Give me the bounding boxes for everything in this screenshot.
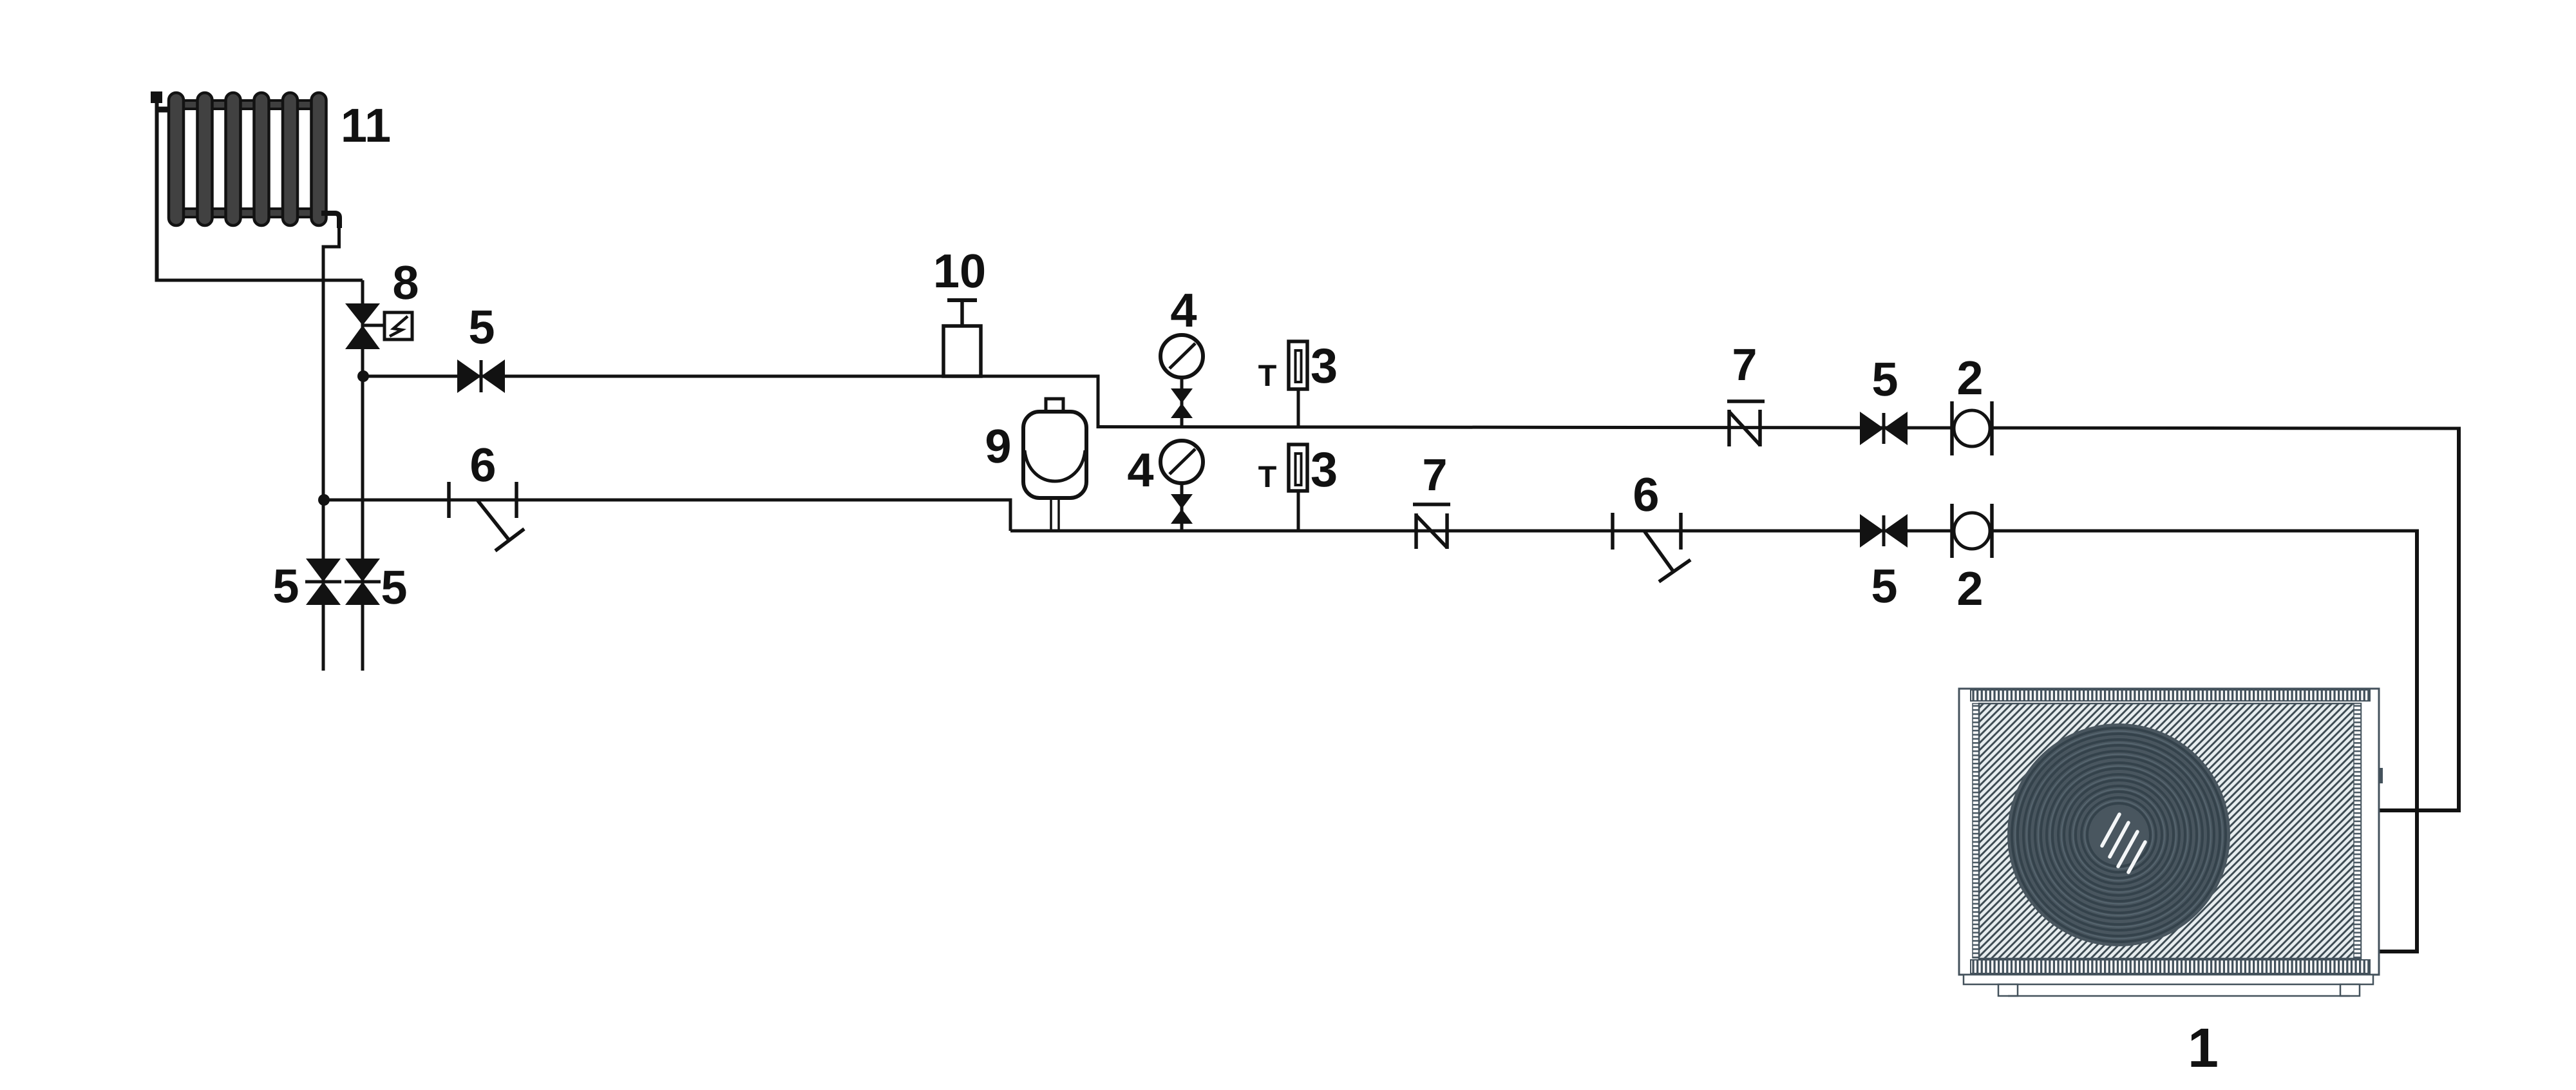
svg-text:5: 5 — [272, 559, 299, 613]
pressure gauge 4 upper — [1160, 335, 1203, 428]
svg-text:7: 7 — [1423, 450, 1448, 500]
svg-text:11: 11 — [341, 99, 391, 152]
svg-text:2: 2 — [1956, 562, 1983, 615]
valve 5 upper-left gate valve — [457, 359, 505, 393]
check valve 7 upper — [1727, 401, 1765, 446]
wire: upper pipe run y=665 — [1098, 427, 2459, 429]
valve 6 balancing valve right — [1613, 513, 1690, 582]
svg-text:T: T — [1258, 459, 1277, 493]
heat pump 1 — [1959, 689, 2383, 996]
svg-text:5: 5 — [1871, 559, 1897, 613]
svg-text:2: 2 — [1956, 351, 1983, 405]
svg-text:4: 4 — [1170, 283, 1197, 337]
svg-text:5: 5 — [468, 300, 495, 354]
thermometer 3 lower — [1289, 445, 1307, 531]
svg-text:9: 9 — [985, 419, 1011, 473]
valve 6 balancing valve left — [449, 482, 524, 551]
wire: radiator bottom-right elbow — [321, 213, 339, 228]
svg-text:1: 1 — [2188, 1017, 2219, 1079]
flex connector 2 upper — [1952, 401, 1992, 455]
node junction lower — [318, 494, 330, 506]
wire: left riser x=502 — [322, 245, 325, 671]
node junction upper — [357, 370, 369, 382]
wire: elbow jog down to left riser — [323, 227, 339, 247]
svg-text:5: 5 — [381, 560, 407, 614]
radiator inlet cap — [151, 91, 162, 103]
wire: horizontal supply run y=435 — [155, 279, 363, 282]
svg-text:5: 5 — [1871, 352, 1898, 406]
safety valve 10 — [943, 300, 981, 376]
valve 8 motorized zone valve — [345, 303, 412, 349]
svg-text:6: 6 — [469, 438, 496, 492]
wire: lower pipe run y=824 — [1010, 530, 2417, 533]
valve 5 bottom-right on riser — [345, 559, 381, 605]
wire: lower return horizontal y=776 — [323, 499, 1010, 502]
svg-text:3: 3 — [1311, 443, 1338, 497]
wire: radiator left supply pipe down — [155, 97, 159, 282]
svg-text:T: T — [1258, 358, 1277, 392]
svg-text:8: 8 — [392, 256, 419, 309]
valve 5 right upper — [1860, 412, 1908, 445]
pressure gauge 4 lower — [1160, 441, 1203, 531]
svg-text:6: 6 — [1633, 468, 1659, 521]
wire: upper supply horizontal y=584 — [363, 375, 1098, 378]
radiator 11 — [169, 93, 327, 225]
valve 5 bottom-left on riser — [305, 559, 341, 605]
wire: lower pipe step down at x=1569 — [1009, 499, 1012, 531]
wire: upper pipe step down at x=1705 — [1097, 375, 1100, 429]
valve 5 right lower — [1860, 514, 1908, 548]
radiator top connector stub — [156, 107, 169, 113]
svg-text:3: 3 — [1311, 339, 1338, 394]
flex connector 2 lower — [1952, 504, 1992, 558]
expansion vessel 9 — [1023, 399, 1086, 530]
wire: right riser x=563 — [361, 280, 365, 671]
svg-text:10: 10 — [933, 244, 986, 298]
wire: lower pipe drop to heat pump — [2374, 530, 2417, 952]
check valve 7 lower — [1413, 504, 1450, 549]
svg-text:7: 7 — [1732, 339, 1757, 390]
thermometer 3 upper — [1289, 341, 1307, 428]
wire: upper pipe drop to heat pump — [2374, 427, 2459, 811]
svg-text:4: 4 — [1127, 443, 1153, 497]
